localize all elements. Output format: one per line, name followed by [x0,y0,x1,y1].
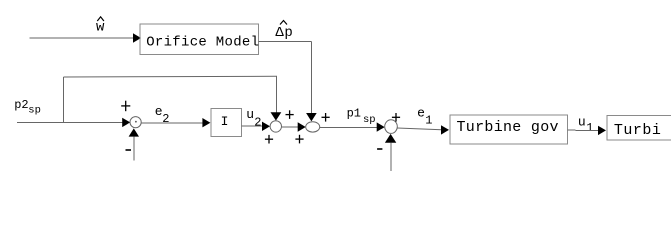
wire e1 from S5 to Turbine gov [397,128,441,130]
summing junction S1 [130,117,141,128]
svg-text:e: e [417,106,425,121]
wire S4 to S5 (p1sp signal) [320,126,378,128]
svg-text:sp: sp [363,114,376,126]
wire w-hat input [30,37,134,39]
svg-text:w: w [96,19,105,35]
svg-text:Orifice Model: Orifice Model [146,35,259,51]
arrowhead down into summing junction S4 [306,113,317,121]
arrowhead into S3 left [262,122,270,131]
block Turbine gov [450,115,568,144]
summing junction S3 [270,121,281,132]
arrowhead into Turbine gov [441,125,449,134]
arrowhead into S4 left [298,122,306,131]
wire p2sp input [17,122,122,124]
svg-text:u: u [578,115,586,130]
wire S3 to S4 [282,126,299,128]
wire branch top near-horizontal to x=277 [64,75,278,78]
label p2sp [14,98,41,117]
minus sign at S1 [126,149,132,151]
svg-text:Turbine gov: Turbine gov [457,119,559,136]
svg-text:2: 2 [254,115,261,129]
arrowhead into Orifice Model [133,33,141,42]
plus sign S3 top-right [286,110,294,119]
arrowhead up into S5 bottom [385,134,396,143]
svg-text:I: I [221,114,229,129]
svg-text:Turbi: Turbi [614,122,662,139]
svg-text:p1: p1 [347,106,361,120]
arrowhead down into summing junction S3 [271,112,282,120]
plus sign S4 top-right [322,113,330,122]
label p1sp [347,106,376,126]
wire branch vertical up from p2sp line [63,77,65,123]
svg-text:sp: sp [28,105,41,117]
wire u1 from Turbine gov to Turbine [567,129,598,131]
svg-text:1: 1 [425,114,432,128]
minus sign at S5 [377,148,382,150]
svg-text:u: u [246,107,254,122]
wire e2 from S1 to I block [141,122,203,124]
arrowhead into summing junction S1 [122,118,130,127]
wire u2 from I block to S3 [242,125,262,127]
plus sign S3 bottom-left [265,135,273,144]
svg-text:p2: p2 [14,98,28,112]
plus sign at S1 [121,101,130,112]
svg-text:1: 1 [586,121,593,135]
svg-text:Δp: Δp [275,25,293,41]
wire S5 negative feedback vertical [390,143,392,172]
svg-text:2: 2 [162,112,169,126]
wire delta-p feedback horizontal [259,41,312,43]
arrowhead into S5 left [377,122,385,131]
block Orifice Model [140,24,259,55]
label w-hat (input signal) [96,17,105,36]
plus sign S5 top-right [392,113,400,122]
label e2 [155,104,170,126]
wire delta-p feedback vertical drop [311,42,313,114]
label u1 [578,115,594,135]
label e1 [417,106,432,128]
wire S1 negative feedback vertical [133,137,135,161]
block I (integrator) [211,108,242,136]
label delta-p-hat [275,21,293,41]
label u2 [246,107,261,129]
wire branch vertical down into S3 [276,76,278,112]
arrowhead into I block [202,118,210,127]
arrowhead up into S1 bottom [129,128,139,136]
plus sign S4 bottom-left [295,135,303,144]
summing junction S5 [385,120,398,134]
block Turbine (clipped at right edge) [607,116,671,141]
arrowhead into Turbine block [598,126,606,135]
summing junction S4 (ellipse) [306,122,320,132]
